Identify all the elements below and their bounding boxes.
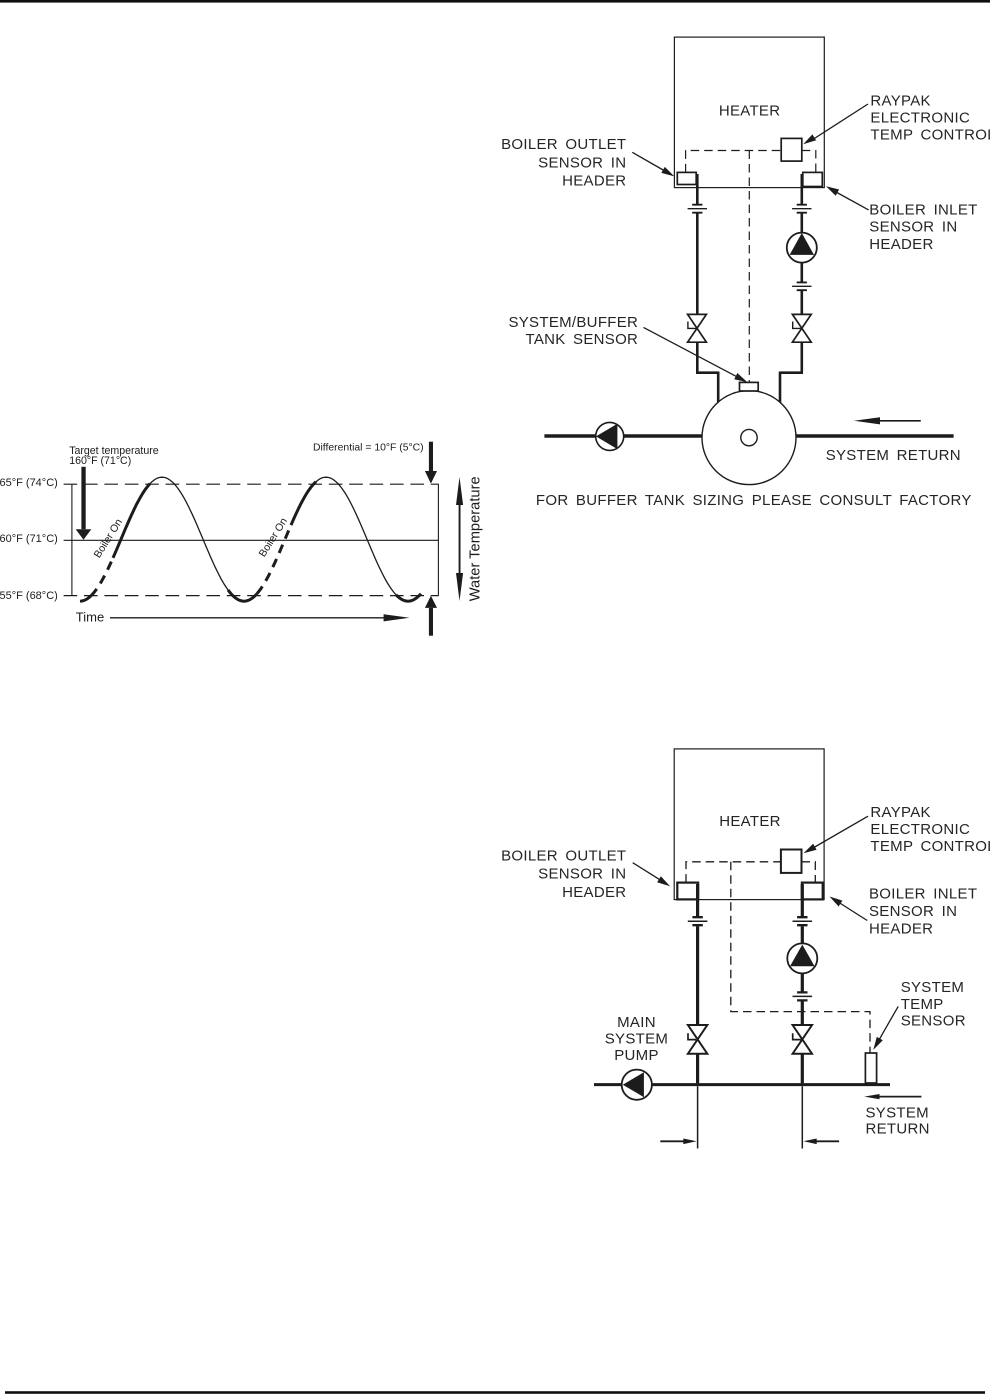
155F dashed gridline (64, 595, 439, 597)
pipe stub below main line (right) (801, 1086, 803, 1148)
svg-text:SYSTEM: SYSTEM (605, 1031, 668, 1048)
svg-text:SYSTEM: SYSTEM (901, 979, 964, 996)
label BOILER OUTLET SENSOR IN HEADER (top) (501, 136, 626, 189)
svg-text:SENSOR IN: SENSOR IN (869, 219, 957, 236)
svg-text:BOILER OUTLET: BOILER OUTLET (501, 136, 626, 153)
sine curve: thin segment over second peak (316, 477, 396, 595)
label RAYPAK ELECTRONIC TEMP CONTROL (top) (870, 92, 990, 143)
system temp sensor on main line (865, 1053, 876, 1083)
leader arrow to control box (bottom) (804, 816, 869, 853)
svg-text:160°F (71°C): 160°F (71°C) (69, 455, 131, 467)
gate valve (top inlet pipe) (792, 314, 811, 342)
svg-text:BOILER OUTLET: BOILER OUTLET (501, 848, 626, 865)
svg-text:HEADER: HEADER (562, 884, 626, 901)
160F solid gridline (64, 539, 439, 541)
svg-text:TEMP: TEMP (901, 996, 944, 1013)
Raypak electronic temp control box U2 (bottom) (781, 850, 802, 873)
flow direction arrow (bottom system return) (864, 1094, 921, 1099)
sine curve: thick solid segment at first trough (228, 590, 257, 601)
svg-text:Differential = 10°F (5°C): Differential = 10°F (5°C) (313, 442, 424, 453)
leader arrow to tank sensor (644, 327, 748, 382)
union fitting (bottom inlet pipe, upper) (793, 917, 813, 925)
time axis arrow (110, 614, 410, 621)
bottom border rule (5, 1391, 985, 1394)
Raypak electronic temp control box U1 (top) (781, 138, 802, 161)
svg-text:SENSOR IN: SENSOR IN (538, 154, 626, 171)
svg-text:BOILER INLET: BOILER INLET (869, 202, 977, 219)
boiler outlet sensor in header (bottom) (677, 883, 698, 900)
label MAIN SYSTEM PUMP (605, 1014, 668, 1064)
dimension arrow pointing left to right pipe stub (803, 1139, 839, 1145)
water temperature sine curve: thick solid segment 1 (80, 596, 91, 601)
svg-text:TANK SENSOR: TANK SENSOR (525, 331, 638, 348)
union fitting (top inlet pipe, upper) (792, 205, 811, 213)
leader arrow to outlet sensor (bottom) (633, 863, 670, 887)
svg-text:FOR BUFFER TANK SIZING PLEASE: FOR BUFFER TANK SIZING PLEASE CONSULT FA… (536, 492, 972, 509)
sine curve: thick solid segment at last trough (396, 594, 421, 602)
svg-text:Time: Time (76, 609, 104, 624)
system return main line (top diagram) (544, 434, 953, 438)
system/buffer tank sensor on tank top (740, 382, 759, 391)
svg-text:ELECTRONIC: ELECTRONIC (870, 821, 970, 838)
label SYSTEM TEMP SENSOR (901, 979, 966, 1029)
svg-text:RAYPAK: RAYPAK (870, 92, 930, 109)
inlet pipe (top right, with jog to tank) (780, 174, 803, 404)
boiler inlet sensor in header (top) (803, 172, 823, 186)
system pump on main line (top) (596, 422, 624, 450)
label Target temperature (69, 445, 159, 467)
heater enclosure box (bottom diagram) (674, 749, 824, 900)
main system line (bottom diagram) (594, 1083, 890, 1086)
svg-text:160°F (71°C): 160°F (71°C) (0, 533, 58, 545)
svg-text:SENSOR IN: SENSOR IN (538, 865, 626, 882)
svg-text:SYSTEM RETURN: SYSTEM RETURN (826, 447, 961, 464)
heater enclosure box (top diagram) (674, 37, 824, 188)
svg-text:PUMP: PUMP (614, 1047, 659, 1064)
gate valve (top outlet pipe) (688, 314, 707, 342)
flow direction arrow (top system return) (854, 417, 921, 424)
sine curve: thick dashed segment 2 (boiler on) (257, 525, 291, 594)
union fitting (top outlet pipe) (688, 205, 707, 213)
label RAYPAK ELECTRONIC TEMP CONTROL (bottom) (870, 804, 990, 855)
gate valve (bottom outlet pipe) (688, 1025, 707, 1054)
gate valve (bottom inlet pipe) (793, 1025, 812, 1054)
svg-text:155°F (68°C): 155°F (68°C) (0, 590, 58, 602)
outlet pipe (top left, with jog to tank) (696, 174, 718, 404)
differential lower arrow (up to 155F line) (425, 596, 437, 636)
svg-text:BOILER INLET: BOILER INLET (869, 886, 977, 903)
union fitting (bottom inlet pipe, lower) (793, 992, 813, 1000)
svg-text:Water Temperature: Water Temperature (467, 476, 483, 601)
outlet pipe (bottom left) (696, 884, 699, 1083)
svg-text:HEADER: HEADER (869, 921, 933, 938)
target temperature arrow (thick down arrow to 160F line) (76, 467, 92, 540)
union fitting (top inlet pipe, lower) (792, 282, 811, 290)
leader arrow to system temp sensor (873, 1006, 898, 1050)
circulating pump (top inlet pipe) (787, 233, 817, 263)
boiler inlet sensor in header (bottom) (802, 883, 823, 900)
circulating pump (bottom inlet pipe) (787, 943, 817, 973)
sine curve: thick solid segment 3 (291, 482, 316, 525)
inlet pipe (bottom right) (801, 884, 804, 1083)
sine curve: thick solid segment 2 (113, 484, 150, 558)
leader arrow to outlet sensor (top) (632, 152, 674, 176)
svg-text:HEADER: HEADER (869, 236, 933, 253)
chart frame verticals (72, 484, 439, 596)
svg-text:HEADER: HEADER (562, 173, 626, 190)
dashed sensor wiring (bottom) (686, 862, 870, 1053)
svg-text:MAIN: MAIN (617, 1014, 656, 1031)
svg-text:165°F (74°C): 165°F (74°C) (0, 477, 58, 489)
dimension arrow pointing right to left pipe stub (660, 1139, 696, 1145)
label BOILER OUTLET SENSOR IN HEADER (bottom) (501, 848, 626, 901)
leader arrow to inlet sensor (bottom) (830, 897, 868, 921)
boiler outlet sensor in header (top) (677, 172, 696, 184)
dashed sensor wiring (top) (686, 151, 816, 382)
svg-text:HEATER: HEATER (719, 813, 781, 830)
pipe stub below main line (left) (697, 1086, 699, 1148)
svg-text:ELECTRONIC: ELECTRONIC (870, 109, 970, 126)
svg-text:SYSTEM: SYSTEM (866, 1104, 929, 1121)
svg-text:RAYPAK: RAYPAK (870, 804, 930, 821)
label BOILER INLET SENSOR IN HEADER (bottom) (869, 886, 977, 938)
svg-text:HEATER: HEATER (719, 102, 781, 119)
svg-text:TEMP CONTROL: TEMP CONTROL (870, 838, 990, 855)
svg-text:SYSTEM/BUFFER: SYSTEM/BUFFER (508, 314, 638, 331)
differential upper arrow (down to 165F line) (425, 442, 437, 484)
leader arrow to control box (top) (803, 104, 868, 144)
svg-text:SENSOR IN: SENSOR IN (869, 903, 957, 920)
union fitting (bottom outlet pipe) (688, 917, 708, 925)
svg-text:RETURN: RETURN (866, 1121, 930, 1138)
top border bar (0, 0, 990, 3)
165F dashed gridline (64, 483, 439, 485)
svg-text:SENSOR: SENSOR (901, 1013, 966, 1030)
svg-text:TEMP CONTROL: TEMP CONTROL (870, 127, 990, 144)
label SYSTEM RETURN (bottom) (866, 1104, 930, 1137)
leader arrow to inlet sensor (top) (826, 186, 869, 210)
label SYSTEM/BUFFER TANK SENSOR (508, 314, 638, 348)
sine curve: thin segment over first peak (150, 477, 228, 590)
water temperature double-headed range arrow (456, 477, 463, 601)
label BOILER INLET SENSOR IN HEADER (top) (869, 202, 977, 253)
main system pump on line (622, 1070, 652, 1100)
buffer tank (702, 391, 796, 485)
sine curve: thick dashed segment 1 (boiler on) (91, 558, 113, 596)
